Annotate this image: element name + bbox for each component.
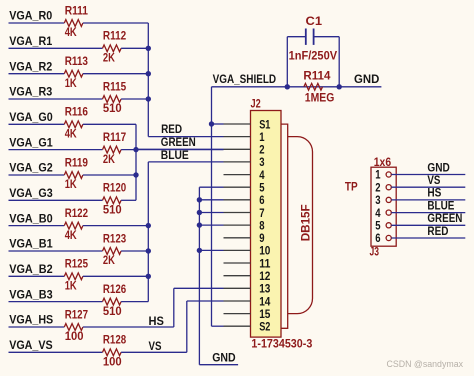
wire VGA_R3 row: [9, 98, 103, 100]
svg-text:R114: R114: [303, 69, 330, 83]
wire VGA_SHIELD horizontal: [212, 86, 382, 88]
wire C1 left branch: [286, 37, 288, 87]
svg-text:2K: 2K: [103, 253, 115, 267]
pin J3-5 circle: [386, 223, 391, 228]
svg-text:R119: R119: [65, 155, 89, 169]
wire shield vertical: [211, 87, 213, 326]
pin 9 stub: [224, 237, 251, 239]
connector J3 body: [371, 167, 396, 246]
svg-text:6: 6: [375, 231, 381, 245]
svg-text:1K: 1K: [65, 279, 77, 293]
wire VGA_B0 row: [9, 225, 65, 227]
wire VGA_G3 to bus: [121, 199, 136, 201]
wire HS vertical: [173, 288, 175, 327]
wire VGA_B2 row: [9, 275, 65, 277]
wire J3-6 to RED: [391, 237, 465, 239]
svg-text:510: 510: [103, 101, 122, 115]
wire J3-4 to BLUE: [391, 212, 465, 214]
svg-text:1-1734530-3: 1-1734530-3: [251, 336, 312, 350]
svg-text:S2: S2: [259, 320, 270, 334]
node RED bus vertical: [147, 23, 149, 137]
wire VGA_HS row: [9, 326, 65, 328]
resistor R117: [103, 146, 122, 153]
wire VGA_G2 to bus: [83, 174, 136, 176]
wire J3-2 to VS: [391, 186, 465, 188]
wire VS vertical: [186, 301, 188, 352]
pin 7 stub: [224, 212, 251, 214]
svg-text:CSDN @sandymax: CSDN @sandymax: [387, 359, 464, 370]
resistor R119: [64, 172, 83, 179]
junction dot G1: [133, 147, 138, 152]
pin 5 stub: [224, 186, 251, 188]
wire VGA_G0 to bus: [83, 123, 136, 125]
svg-text:R125: R125: [65, 257, 89, 271]
resistor R116: [64, 121, 83, 128]
wire VGA_R1 row: [9, 47, 103, 49]
junction dot pin6: [197, 197, 202, 202]
svg-text:VS: VS: [149, 339, 162, 353]
wire VGA_G3 row: [9, 199, 103, 201]
wire VGA_R2 to bus: [83, 73, 148, 75]
wire VGA_HS to bus: [83, 326, 174, 328]
svg-text:VGA_HS: VGA_HS: [9, 313, 53, 327]
resistor R122: [64, 222, 83, 229]
wire S2 stub link: [212, 325, 224, 327]
wire G1 row to pin2 (GREEN): [136, 148, 224, 150]
pin J3-1 circle: [386, 172, 391, 177]
svg-text:100: 100: [103, 355, 122, 369]
svg-text:2K: 2K: [103, 51, 115, 65]
resistor R113: [64, 70, 83, 77]
svg-text:VGA_R1: VGA_R1: [9, 34, 52, 48]
wire VGA_B1 to bus: [121, 250, 148, 252]
junction dot B0: [146, 223, 151, 228]
resistor R115: [103, 96, 122, 103]
svg-text:GND: GND: [354, 72, 380, 86]
svg-text:VGA_R3: VGA_R3: [9, 85, 52, 99]
wire VGA_R1 to bus: [121, 47, 148, 49]
node BLUE bus vertical: [147, 162, 149, 302]
wire VGA_VS to bus: [121, 351, 187, 353]
svg-text:VGA_G2: VGA_G2: [9, 161, 53, 175]
wire RED to pin1: [148, 136, 223, 138]
svg-text:R120: R120: [103, 181, 127, 195]
wire J3-3 to HS: [391, 199, 465, 201]
junction dot G2: [133, 172, 138, 177]
svg-text:R112: R112: [103, 29, 127, 43]
pin 2 stub: [224, 148, 251, 150]
pin J3-2 circle: [386, 185, 391, 190]
pin J3-6 circle: [386, 235, 391, 240]
wire C1 right branch: [338, 37, 340, 87]
junction dot B1: [146, 248, 151, 253]
pin 11 stub: [224, 262, 251, 264]
wire J3-1 to GND: [391, 174, 465, 176]
svg-text:RED: RED: [427, 224, 448, 238]
pin 1 stub: [224, 136, 251, 138]
svg-text:VGA_G1: VGA_G1: [9, 135, 53, 149]
wire VGA_R0 to bus: [83, 22, 148, 24]
svg-text:510: 510: [103, 304, 122, 318]
resistor R120: [103, 197, 122, 204]
wire VGA_R2 row: [9, 73, 65, 75]
junction dot pin10: [197, 248, 202, 253]
junction dot pin8: [197, 222, 202, 227]
svg-text:1MEG: 1MEG: [305, 91, 335, 105]
svg-text:2K: 2K: [103, 152, 115, 166]
wire GND bottom horizontal: [199, 364, 238, 366]
wire HS to pin13: [174, 287, 224, 289]
pin 14 stub: [224, 300, 251, 302]
resistor R123: [103, 248, 122, 255]
junction dot R3: [146, 96, 151, 101]
svg-text:VGA_B1: VGA_B1: [9, 237, 53, 251]
svg-text:1nF/250V: 1nF/250V: [289, 48, 338, 62]
wire VGA_G1 row: [9, 149, 103, 151]
pin 10 stub: [224, 249, 251, 251]
resistor R128: [103, 349, 122, 356]
resistor R125: [64, 273, 83, 280]
pin J3-3 circle: [386, 197, 391, 202]
pin 8 stub: [224, 224, 251, 226]
svg-text:J2: J2: [251, 97, 261, 111]
svg-text:VGA_B2: VGA_B2: [9, 262, 53, 276]
wire VGA_G0 row: [9, 123, 65, 125]
svg-text:1K: 1K: [65, 76, 77, 90]
svg-text:VGA_VS: VGA_VS: [9, 338, 53, 352]
svg-text:VGA_G3: VGA_G3: [9, 186, 53, 200]
pin 4 stub: [224, 174, 251, 176]
wire GND vertical: [198, 187, 200, 365]
svg-text:100: 100: [65, 329, 84, 343]
wire GND pin10 link: [199, 249, 223, 251]
wire VGA_B2 to bus: [83, 275, 148, 277]
svg-text:VGA_SHIELD: VGA_SHIELD: [213, 72, 277, 86]
svg-text:GND: GND: [212, 351, 236, 365]
pin S2 stub: [224, 325, 251, 327]
svg-text:VGA_B0: VGA_B0: [9, 211, 53, 225]
junction dot shield-right: [337, 84, 342, 89]
wire GND pin8 link: [199, 224, 223, 226]
resistor R111: [64, 20, 83, 27]
svg-text:VGA_B3: VGA_B3: [9, 287, 53, 301]
wire S1 stub link: [212, 123, 224, 125]
junction dot shield-left: [285, 84, 290, 89]
svg-text:BLUE: BLUE: [161, 148, 189, 162]
svg-text:R128: R128: [103, 333, 127, 347]
svg-text:R113: R113: [65, 54, 89, 68]
svg-text:J3: J3: [370, 245, 380, 259]
wire VGA_B3 to bus: [121, 301, 148, 303]
svg-text:4K: 4K: [65, 25, 77, 39]
pin S1 stub: [224, 123, 251, 125]
junction dot R1: [146, 46, 151, 51]
svg-text:DB15F: DB15F: [298, 204, 312, 241]
node GREEN bus vertical: [135, 124, 137, 200]
wire VGA_R0 row: [9, 22, 65, 24]
pin 12 stub: [224, 275, 251, 277]
svg-text:R127: R127: [65, 307, 89, 321]
svg-text:4K: 4K: [65, 228, 77, 242]
pin 6 stub: [224, 199, 251, 201]
svg-text:R115: R115: [103, 79, 127, 93]
wire VGA_G2 row: [9, 174, 65, 176]
junction dot S1: [209, 121, 214, 126]
wire VGA_R3 to bus: [121, 98, 148, 100]
junction dot pin7: [197, 210, 202, 215]
svg-text:R116: R116: [65, 105, 89, 119]
wire VGA_G1 to bus: [121, 149, 223, 151]
wire GND pin7 link: [199, 212, 223, 214]
capacitor C1: [287, 36, 306, 38]
pin J3-4 circle: [386, 210, 391, 215]
resistor R114: [304, 83, 323, 90]
svg-text:R123: R123: [103, 231, 127, 245]
svg-text:VGA_G0: VGA_G0: [9, 110, 53, 124]
svg-text:VGA_R0: VGA_R0: [9, 9, 52, 23]
resistor R127: [64, 324, 83, 331]
wire GND pin5 link: [199, 186, 223, 188]
wire VGA_B1 row: [9, 250, 103, 252]
pin 3 stub: [224, 161, 251, 163]
svg-text:HS: HS: [149, 314, 164, 328]
svg-text:GREEN: GREEN: [161, 135, 196, 149]
wire J3-5 to GREEN: [391, 224, 465, 226]
wire VGA_VS row: [9, 351, 103, 353]
svg-text:R111: R111: [65, 3, 89, 17]
svg-text:VGA_R2: VGA_R2: [9, 59, 52, 73]
junction dot B2: [146, 274, 151, 279]
connector J2 body: [251, 111, 282, 338]
pin 13 stub: [224, 287, 251, 289]
svg-text:C1: C1: [306, 14, 323, 28]
wire VGA_B3 row: [9, 301, 103, 303]
wire VGA_B0 to bus: [83, 225, 148, 227]
wire GND pin6 link: [199, 199, 223, 201]
resistor R112: [103, 45, 122, 52]
svg-text:R117: R117: [103, 130, 127, 144]
svg-text:TP: TP: [345, 179, 358, 193]
pin 15 stub: [224, 313, 251, 315]
svg-text:R122: R122: [65, 206, 89, 220]
svg-text:1K: 1K: [65, 177, 77, 191]
junction dot R2: [146, 71, 151, 76]
wire BLUE to pin3: [148, 161, 223, 163]
svg-text:510: 510: [103, 203, 122, 217]
svg-text:R126: R126: [103, 282, 127, 296]
connector J2 shield tab: [281, 124, 288, 328]
resistor R126: [103, 298, 122, 305]
svg-text:4K: 4K: [65, 127, 77, 141]
wire VS to pin14: [187, 300, 224, 302]
connector J2 D-shell outline: [288, 137, 313, 314]
